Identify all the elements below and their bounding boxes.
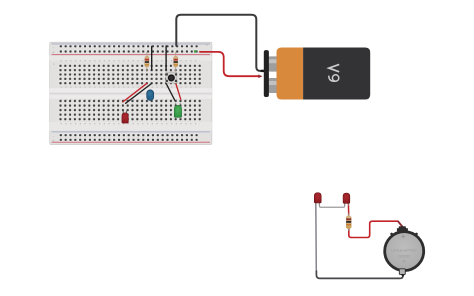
svg-text:30: 30 bbox=[205, 43, 209, 47]
coin battery clips bbox=[390, 233, 393, 236]
capacitor C1 bbox=[147, 90, 154, 101]
LED D1 red free bbox=[314, 193, 321, 206]
top rail holes row 2 bbox=[59, 50, 198, 53]
battery 9V bbox=[264, 48, 370, 100]
battery 9V label bbox=[329, 64, 339, 81]
wire red tip bbox=[258, 75, 262, 79]
wire red diagonal B bbox=[176, 83, 181, 99]
main holes rows f-j bbox=[58, 99, 202, 122]
breadboard red line top bbox=[52, 54, 211, 55]
wire red resistor to coin battery bbox=[349, 221, 399, 237]
breadboard center groove bbox=[50, 88, 212, 99]
breadboard blue line bottom bbox=[52, 130, 211, 133]
LED red on breadboard bbox=[122, 111, 128, 124]
breadboard blue line top bbox=[52, 43, 211, 46]
battery terminal upper bbox=[269, 56, 279, 71]
wire red diagonal A bbox=[123, 83, 147, 102]
wire red LED to resistor bbox=[347, 203, 349, 215]
bottom rail holes row 1 bbox=[59, 134, 198, 137]
rail plus minus marks bbox=[52, 43, 209, 144]
node green dot button bbox=[175, 81, 178, 84]
LED green on breadboard bbox=[174, 103, 181, 117]
wire black jumper 2 bbox=[165, 46, 167, 70]
top rail holes row 1 bbox=[59, 45, 198, 48]
main holes rows a-e bbox=[58, 64, 202, 86]
wire grey vertical from LED D1 bbox=[315, 203, 318, 273]
LED D2 red free bbox=[343, 193, 350, 206]
resistor R3 free bbox=[346, 213, 351, 231]
wire black jumper 1 bbox=[151, 46, 153, 70]
wire black tip bbox=[262, 70, 264, 72]
coin battery text bbox=[391, 248, 417, 263]
svg-text:CR2032: CR2032 bbox=[398, 255, 410, 259]
battery terminal lower bbox=[269, 78, 279, 93]
battery orange section bbox=[277, 48, 304, 100]
resistor R1 bbox=[145, 52, 149, 72]
label strip dots bbox=[61, 61, 201, 124]
wire black diagonal B bbox=[166, 83, 175, 100]
pushbutton S1 bbox=[166, 72, 177, 83]
wire black to battery bbox=[176, 15, 263, 71]
bottom rail holes row 2 bbox=[59, 138, 198, 141]
coin battery bottom tab bbox=[399, 269, 405, 275]
battery cap plate bbox=[264, 50, 269, 97]
coin battery CR2032 bbox=[385, 226, 424, 277]
breadboard red line bottom bbox=[52, 142, 211, 143]
wire red tip at coin battery bbox=[398, 221, 402, 226]
wire grey between LEDs bbox=[319, 203, 344, 208]
coin battery top tab bbox=[397, 228, 408, 231]
coin battery plus bbox=[401, 235, 405, 239]
resistor R2 bbox=[174, 52, 178, 72]
svg-text:LITHIUM BATTERY: LITHIUM BATTERY bbox=[391, 248, 417, 252]
battery dark body bbox=[303, 48, 370, 100]
breadboard body bbox=[50, 42, 212, 144]
wire dark to coin battery bottom tab bbox=[316, 271, 403, 279]
node green dot rail bbox=[194, 50, 197, 53]
breadboard rail gap strips bbox=[50, 56, 212, 61]
wire red to battery bbox=[200, 52, 259, 76]
wire black diagonal A bbox=[126, 83, 152, 103]
